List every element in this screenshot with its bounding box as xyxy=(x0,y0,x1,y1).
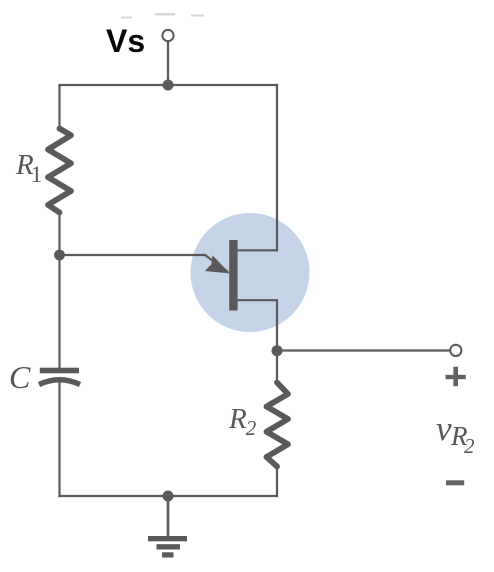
terminal output xyxy=(450,345,461,356)
wire: source lead xyxy=(237,300,278,351)
wire: Vs terminal lead xyxy=(167,41,169,85)
JFET halo xyxy=(191,213,310,332)
wire: drain lead xyxy=(237,84,278,250)
wire: left rail middle xyxy=(58,211,60,368)
resistor R2 xyxy=(267,383,289,467)
wire: bottom rail xyxy=(58,495,278,497)
capacitor C plate bottom (arc) xyxy=(39,380,80,385)
minus sign xyxy=(446,480,464,485)
node: output junction xyxy=(272,345,283,356)
wire: top rail xyxy=(58,84,278,86)
wire: R2 top lead xyxy=(276,351,278,384)
label Vs xyxy=(106,23,145,60)
terminal Vs xyxy=(162,30,173,41)
wire: gate lead xyxy=(60,254,207,256)
resistor R1 xyxy=(48,129,71,213)
ground xyxy=(148,536,187,558)
label R1 xyxy=(16,149,42,188)
node: top junction xyxy=(163,80,174,91)
label vR2 xyxy=(434,410,484,460)
wire: left rail upper xyxy=(58,84,60,130)
wire: ground stub xyxy=(167,496,170,537)
node: gate junction xyxy=(54,250,65,261)
node: ground junction xyxy=(163,491,174,502)
wire: output lead xyxy=(277,349,450,351)
gate arrowhead xyxy=(205,255,230,273)
cropped text remnants (top) xyxy=(121,13,204,19)
wire: R2 bottom lead xyxy=(276,465,278,497)
JFET Q1 channel bar xyxy=(229,240,237,311)
wire: left rail lower xyxy=(58,382,60,497)
label R2 xyxy=(229,403,256,441)
capacitor C plate top xyxy=(40,368,79,374)
label C xyxy=(9,359,30,396)
plus sign xyxy=(446,367,466,387)
wire: gate diagonal xyxy=(205,255,228,272)
